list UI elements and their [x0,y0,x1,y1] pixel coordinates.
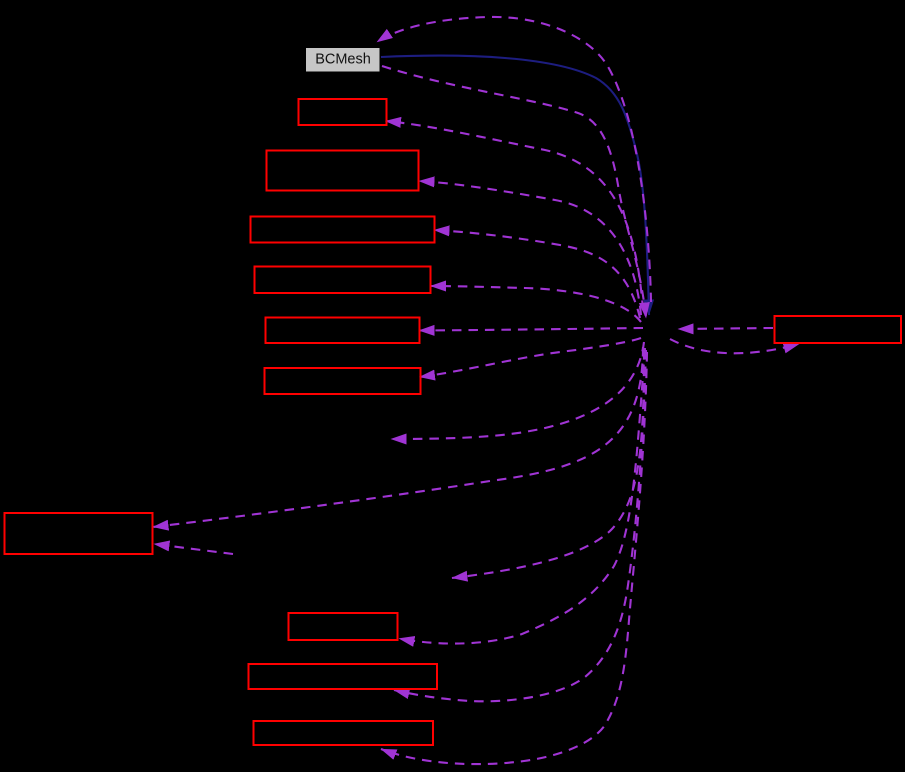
svg-text:BCMesh: BCMesh [315,52,371,68]
